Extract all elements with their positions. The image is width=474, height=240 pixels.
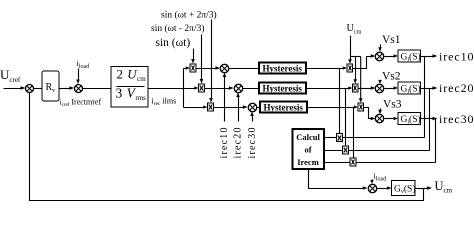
svg-text:Hysteresis: Hysteresis bbox=[263, 84, 303, 94]
svg-text:irec20: irec20 bbox=[233, 126, 244, 158]
node label irec20 output bbox=[439, 81, 474, 95]
wire Gv output arrow to U_cm bbox=[416, 186, 433, 190]
wire hysteresis1 tap down to m1 bbox=[339, 69, 341, 134]
node label Vs1 bbox=[382, 34, 401, 46]
wire feedback Ucm down and along bottom to S1 bbox=[30, 93, 424, 201]
wire Hysteresis3 to s3 bbox=[308, 105, 359, 108]
svg-text:Vs2: Vs2 bbox=[382, 71, 401, 83]
summing junction c1 bbox=[220, 64, 228, 72]
wire sin(wt-2pi/3) arrow into q2 bbox=[200, 35, 204, 84]
wire irec30 feedback arrow into c3 bbox=[250, 112, 254, 122]
summing junction d3 bbox=[375, 114, 383, 122]
block Calcul of Irecm bbox=[293, 129, 325, 169]
multiplier m2 bbox=[343, 146, 349, 154]
wire Vs3 arrow into d3 bbox=[378, 109, 382, 115]
wire feedback tap row2 down to m2 line bbox=[429, 89, 431, 151]
node U_cm top label bbox=[347, 23, 362, 36]
node label irec ilms bbox=[152, 97, 177, 108]
node label sin(wt + 2pi/3) bbox=[161, 10, 217, 21]
wire c3 to Hysteresis3 bbox=[257, 107, 261, 109]
wire branch vertical bbox=[183, 69, 185, 108]
multiplier s2 bbox=[353, 84, 359, 92]
svg-text:sin (ωt): sin (ωt) bbox=[156, 37, 191, 49]
wire feedback tap row3 down to m3 line bbox=[435, 119, 437, 163]
wire c2 to Hysteresis2 bbox=[243, 88, 260, 90]
wire Rv to S2 bbox=[60, 86, 75, 89]
block Hysteresis 1 bbox=[259, 63, 306, 74]
summing junction d1 bbox=[375, 52, 383, 60]
svg-text:Hysteresis: Hysteresis bbox=[263, 64, 303, 74]
svg-text:irec30: irec30 bbox=[247, 126, 258, 158]
svg-text:Vs3: Vs3 bbox=[383, 99, 402, 111]
wire s3 jog down to d3 bbox=[364, 108, 376, 121]
svg-text:sin (ωt - 2π/3): sin (ωt - 2π/3) bbox=[151, 23, 205, 34]
multiplier s3 bbox=[358, 103, 364, 111]
summing junction S1 bbox=[26, 85, 34, 93]
wire hysteresis2 tap down to m2 bbox=[345, 89, 347, 147]
node label irec30 vertical bbox=[247, 126, 258, 158]
wire sin(wt+2pi/3) arrow into q3 bbox=[209, 20, 213, 103]
wire branch to q1 bbox=[184, 66, 191, 69]
svg-text:Gi(S): Gi(S) bbox=[401, 114, 421, 126]
wire q1 to c1 bbox=[197, 66, 221, 69]
svg-text:Gi(S): Gi(S) bbox=[401, 52, 421, 64]
summing junction c2 bbox=[234, 84, 242, 92]
wire U_cm arrow into s3 bbox=[359, 57, 363, 103]
wire G1 output arrow to irec10 bbox=[421, 54, 438, 58]
wire sin(wt) arrow into q1 bbox=[191, 49, 195, 64]
wire q3 to c3 bbox=[214, 105, 248, 108]
wire U_cref to S1 with arrow bbox=[4, 86, 26, 90]
block G1 Gi(S) bbox=[398, 50, 421, 63]
wire m1 line into Calcul bbox=[325, 137, 425, 139]
node U_cm output label bbox=[435, 179, 453, 195]
summing junction d2 bbox=[375, 84, 383, 92]
block G2 Gi(S) bbox=[398, 82, 421, 95]
svg-text:irec10: irec10 bbox=[219, 126, 230, 158]
block 2Ucm/3Vrms bbox=[111, 67, 148, 108]
wire U_cm arrow into s1 bbox=[348, 57, 352, 64]
node label irec30 output bbox=[439, 112, 474, 126]
wire feedback tap row1 down to m1 line bbox=[424, 57, 426, 138]
wire d2 to G2 bbox=[385, 86, 399, 89]
svg-text:Hysteresis: Hysteresis bbox=[264, 103, 304, 113]
node label irec10 output bbox=[439, 50, 474, 64]
wire s2 to d2 bbox=[359, 86, 376, 89]
wire S3 to Gv bbox=[377, 186, 392, 189]
wire s1 jog up to d1 bbox=[353, 54, 376, 68]
wire U_cm stem and branch bbox=[351, 36, 361, 57]
wire G3 output arrow to irec30 bbox=[421, 117, 438, 121]
block G3 Gi(S) bbox=[398, 113, 421, 126]
svg-text:Vs1: Vs1 bbox=[382, 34, 401, 46]
wire hysteresis3 tap down to m3 bbox=[353, 108, 355, 159]
wire d1 to G1 bbox=[385, 54, 399, 57]
svg-text:irec30: irec30 bbox=[439, 112, 474, 126]
wire m2 line into Calcul bbox=[325, 150, 430, 152]
svg-text:Gi(S): Gi(S) bbox=[401, 84, 421, 96]
svg-text:of: of bbox=[304, 145, 311, 155]
node label irec20 vertical bbox=[233, 126, 244, 158]
wire Calcul output to S3 bbox=[309, 170, 368, 190]
node label Vs2 bbox=[382, 71, 401, 83]
node label sin(wt) bbox=[156, 37, 191, 49]
wire i_load arrow into S2 bbox=[76, 69, 80, 85]
node i_load label (top of S2) bbox=[77, 58, 90, 70]
svg-text:Calcul: Calcul bbox=[296, 132, 320, 142]
wire irec20 feedback arrow into c2 bbox=[236, 93, 240, 122]
wire i_load arrow into S3 bbox=[370, 180, 374, 184]
wire gain block output row2 main line bbox=[149, 86, 199, 89]
multiplier m1 bbox=[337, 134, 343, 142]
wire Vs1 arrow into d1 bbox=[378, 45, 382, 52]
block Rv regulator bbox=[42, 71, 59, 101]
block Hysteresis 2 bbox=[259, 83, 306, 94]
summing junction S2 bbox=[75, 85, 83, 93]
multiplier m3 bbox=[350, 158, 356, 166]
multiplier q2 bbox=[199, 84, 205, 92]
svg-text:irec20: irec20 bbox=[439, 81, 474, 95]
wire m3 line into Calcul bbox=[325, 162, 436, 164]
node label Vs3 bbox=[383, 99, 402, 111]
svg-text:Gv(S): Gv(S) bbox=[394, 184, 416, 196]
multiplier q3 bbox=[208, 103, 214, 111]
multiplier s1 bbox=[347, 64, 353, 72]
wire Vs2 arrow into d2 bbox=[378, 80, 382, 84]
summing junction c3 bbox=[248, 103, 256, 111]
node U_cref input label bbox=[0, 67, 21, 84]
wire branch to q3 bbox=[184, 105, 208, 108]
wire d3 to G3 bbox=[385, 117, 399, 120]
node label irec10 vertical bbox=[219, 126, 230, 158]
summing junction S3 bbox=[368, 184, 376, 192]
wire irec10 feedback arrow into c1 bbox=[223, 73, 227, 122]
wire S2 to gain block bbox=[83, 88, 112, 90]
node label sin(wt - 2pi/3) bbox=[151, 23, 205, 34]
wire Hysteresis2 to s2 bbox=[307, 86, 353, 89]
wire q2 to c2 bbox=[205, 86, 234, 89]
multiplier q1 bbox=[190, 64, 196, 72]
wire G2 output arrow to irec20 bbox=[421, 86, 438, 90]
block Hysteresis 3 bbox=[260, 102, 307, 113]
svg-text:irec10: irec10 bbox=[439, 50, 474, 64]
block Gv(S) bbox=[392, 181, 416, 196]
node i_load label (top of S3) bbox=[374, 171, 387, 183]
svg-text:sin (ωt + 2π/3): sin (ωt + 2π/3) bbox=[161, 10, 217, 21]
svg-text:Irecm: Irecm bbox=[297, 157, 319, 167]
wire c1 to Hysteresis1 bbox=[229, 68, 260, 70]
wire U_cm arrow into s2 bbox=[353, 57, 357, 84]
wire Hysteresis1 to s1 bbox=[307, 66, 348, 69]
wire S1 to Rv bbox=[34, 88, 43, 90]
node label i_cref Irectmref bbox=[60, 98, 102, 109]
